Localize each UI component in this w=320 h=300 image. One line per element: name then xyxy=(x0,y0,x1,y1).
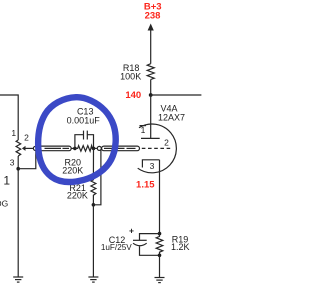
ground R19 xyxy=(155,278,165,283)
svg-text:+: + xyxy=(129,226,134,236)
shield terminal circle left xyxy=(33,146,37,150)
label 1 left edge xyxy=(3,174,10,188)
resistor R20 xyxy=(75,146,94,152)
svg-text:1.2K: 1.2K xyxy=(171,242,190,252)
B+3 supply arrow xyxy=(148,24,154,31)
label C13 xyxy=(67,107,101,126)
junction dot C13/R20 left xyxy=(73,147,77,151)
label R19 1.2K xyxy=(171,235,190,252)
svg-text:DG: DG xyxy=(0,199,8,209)
pot pin 1 label xyxy=(11,128,16,138)
wire to ground right xyxy=(159,255,161,277)
label R21 220K xyxy=(67,183,88,201)
svg-text:1: 1 xyxy=(141,125,146,135)
svg-text:140: 140 xyxy=(125,90,141,101)
wire cathode down xyxy=(159,160,161,234)
label B+3 238 xyxy=(144,2,162,22)
svg-text:1: 1 xyxy=(11,128,16,138)
ground R21 xyxy=(88,277,98,282)
label C12 1uF/25V xyxy=(101,235,132,252)
ground pot xyxy=(13,277,23,282)
pot pin 2 label xyxy=(24,133,29,143)
junction dot C13/R20 right xyxy=(92,147,96,151)
wire shield return to pin3 xyxy=(18,151,36,169)
resistor R18 xyxy=(147,30,154,96)
junction dot R21 bottom xyxy=(92,203,96,207)
wire R21 to ground xyxy=(92,205,94,277)
shielded cable left xyxy=(38,146,75,151)
tube pin 1 label xyxy=(140,125,147,135)
resistor R19 xyxy=(156,234,163,256)
pot pin 3 label xyxy=(10,158,15,168)
tube pin 3 label xyxy=(150,161,155,171)
svg-text:2: 2 xyxy=(24,133,29,143)
node 140 dot xyxy=(149,93,153,97)
shielded cable right xyxy=(102,146,140,151)
svg-text:3: 3 xyxy=(150,161,155,171)
tube pin 2 label xyxy=(164,137,169,147)
capacitor C12 xyxy=(133,240,160,255)
potentiometer element xyxy=(16,140,21,156)
label R18 100K xyxy=(120,63,141,82)
tube cathode xyxy=(142,160,159,168)
svg-text:0.001uF: 0.001uF xyxy=(67,116,101,126)
svg-text:238: 238 xyxy=(145,10,161,21)
wire plate node right xyxy=(151,94,202,96)
wire cathode node to C12 xyxy=(140,234,160,241)
tube V4A envelope xyxy=(138,124,177,173)
label R20 220K xyxy=(62,158,83,176)
svg-text:12AX7: 12AX7 xyxy=(158,112,185,122)
label C12 plus xyxy=(129,226,134,236)
svg-text:1uF/25V: 1uF/25V xyxy=(101,243,132,252)
label DG left edge xyxy=(0,199,8,209)
label 140 xyxy=(125,90,141,101)
resistor R21 xyxy=(91,148,96,204)
junction dot cathode node xyxy=(158,232,162,236)
wire pot pin3 down xyxy=(17,156,19,277)
wire plate lead xyxy=(150,95,152,138)
label 1.15 xyxy=(136,179,155,190)
svg-text:3: 3 xyxy=(10,158,15,168)
wire input L to pot top xyxy=(0,95,18,140)
svg-text:220K: 220K xyxy=(62,166,83,176)
shield drain wire xyxy=(93,150,101,205)
shield terminal circle right xyxy=(94,146,102,150)
pot wiper arrow xyxy=(22,146,34,151)
svg-text:2: 2 xyxy=(164,137,169,147)
svg-text:1: 1 xyxy=(3,174,10,188)
capacitor C13 xyxy=(75,131,94,149)
svg-text:1.15: 1.15 xyxy=(136,179,155,190)
svg-text:220K: 220K xyxy=(67,191,88,201)
tube plate xyxy=(141,137,160,139)
junction dot pot pin3 / shield xyxy=(16,167,20,171)
grid wire dashed xyxy=(142,147,170,149)
svg-text:100K: 100K xyxy=(120,72,141,82)
annotation blue marker circle xyxy=(38,97,116,182)
label V4A 12AX7 xyxy=(158,104,185,123)
junction dot C12/R19 bottom xyxy=(158,254,162,258)
